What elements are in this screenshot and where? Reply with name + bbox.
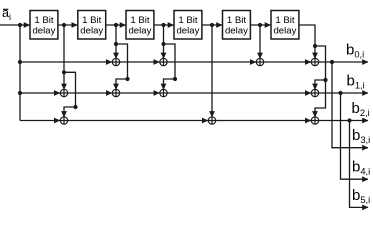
delay block D5 (1 Bit delay): [223, 11, 251, 40]
junction dots on tap T3 jog: [161, 42, 177, 81]
XOR adder U4: [311, 58, 318, 65]
XOR adder U11: [311, 117, 318, 124]
junction dot on register output branch: [313, 44, 328, 82]
wire: adder row b0: [20, 61, 368, 63]
wire: tap T1 jog around b1 adder feeding b2 adder: [64, 72, 76, 117]
XOR adder U10: [208, 117, 215, 124]
junction dots on register line: [18, 23, 262, 27]
svg-text:delay: delay: [273, 26, 296, 37]
wire: input tap vertical at x=20 feeding rows b0,b1,b2: [19, 25, 21, 121]
svg-text:delay: delay: [128, 26, 151, 37]
wire: b2 row tap down to output b5: [350, 121, 369, 208]
wire: tap T3 jog around b0 adder feeding b1 adder: [164, 44, 176, 89]
wire: b1 row tap down to output b4: [341, 93, 369, 179]
output arrowheads b0..b5: [362, 59, 368, 210]
delay block D1 (1 Bit delay): [30, 11, 58, 40]
XOR adder U6: [112, 89, 119, 96]
wire: register shift line with corner down to b0 adder column: [0, 25, 315, 58]
junction dots on tap T2 jog: [114, 42, 130, 81]
svg-text:delay: delay: [80, 26, 103, 37]
XOR adder U9: [60, 117, 67, 124]
XOR adder U7: [160, 89, 167, 96]
svg-text:delay: delay: [176, 26, 199, 37]
XOR adder U2: [160, 58, 167, 65]
delay block D2 (1 Bit delay): [78, 11, 106, 40]
wire: adder row b1: [20, 92, 368, 94]
svg-text:delay: delay: [225, 26, 248, 37]
junction dots on tap T1 jog: [62, 70, 78, 109]
delay block D6 (1 Bit delay): [271, 11, 299, 40]
svg-text:delay: delay: [32, 26, 55, 37]
delay block D3 (1 Bit delay): [126, 11, 154, 40]
node label a_i (input): [2, 6, 11, 22]
wire: adder row b2: [20, 120, 368, 122]
wire: register output branch right of b0 adder column: [315, 46, 326, 80]
wire: branch jog feeding b1 adder at x=315: [315, 80, 326, 89]
junction dots on input tap vertical: [18, 60, 22, 95]
XOR adder U1: [112, 58, 119, 65]
XOR adder U5: [60, 89, 67, 96]
delay block D4 (1 Bit delay): [174, 11, 202, 40]
arrowheads into b1 row adders: [54, 84, 318, 96]
wire: tap T1 at x=64 down to b1 adder: [63, 25, 65, 89]
arrowheads into b0 row adders: [106, 53, 318, 65]
XOR adder U8: [311, 89, 318, 96]
wire: tap T2 at x=116 down to b0 adder: [115, 25, 117, 58]
wire: tap T5 at x=260 down to b0 adder: [259, 25, 261, 58]
junction dots at row output taps: [330, 60, 352, 123]
arrowheads into b2 row adders: [54, 111, 318, 123]
wire: tap T2 jog around b0 adder feeding b1 adder: [116, 44, 128, 89]
arrowheads into delay blocks: [24, 22, 271, 28]
wire: tap T4 at x=212 down to b2 adder: [211, 25, 213, 117]
wire: b0 row tap down to output b3: [332, 62, 368, 148]
wire: branch continuation feeding b2 adder at x=315: [315, 80, 326, 117]
wire: tap T3 at x=163.5 down to b0 adder: [163, 25, 165, 58]
XOR adder U3: [256, 58, 263, 65]
